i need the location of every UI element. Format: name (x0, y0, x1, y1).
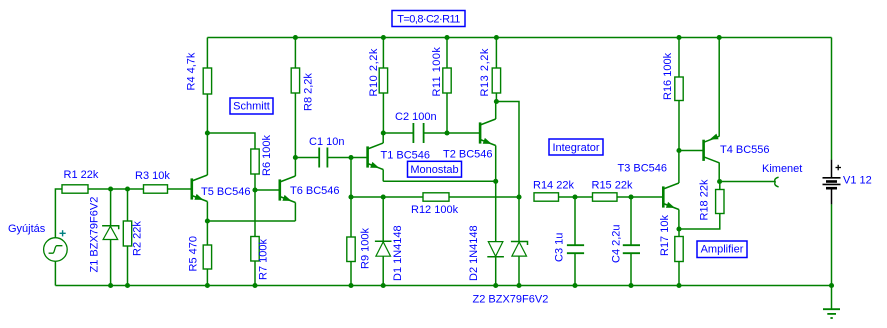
wire T5 collector up to R4 (206, 94, 208, 175)
node C4 junction (628, 194, 633, 199)
node R11 top rail junction (444, 35, 449, 40)
wire emitter rail T1-T2 (383, 180, 496, 182)
node R6 R7 T6-base junction (252, 187, 257, 192)
resistor R18 (719, 182, 721, 190)
wire source top to R1 (55, 189, 62, 238)
node R8 top rail junction (293, 35, 298, 40)
wire R3 to T5 base (168, 188, 192, 190)
wire T4 emitter up to rail (718, 38, 720, 137)
resistor R16 (678, 38, 680, 78)
transistor T6 (280, 176, 296, 203)
svg-text:D1 1N4148: D1 1N4148 (392, 225, 404, 281)
wire monostab output to integrator (496, 102, 519, 198)
resistor R17 (678, 229, 680, 237)
svg-text:R6 100k: R6 100k (261, 135, 273, 176)
svg-text:R12 100k: R12 100k (411, 204, 459, 216)
node R2 top junction (125, 186, 130, 191)
svg-text:R11 100k: R11 100k (431, 47, 443, 97)
node R13 top rail junction (494, 35, 499, 40)
wire junction down to R9 net (350, 158, 352, 198)
svg-text:Gyújtás: Gyújtás (8, 223, 46, 235)
wire R6 bottom to T6 base node (254, 174, 256, 190)
node C1 T1-base junction (348, 155, 353, 160)
wire R1 right to R3 left (88, 188, 144, 190)
wire T3 collector up (678, 151, 680, 184)
svg-text:R14 22k: R14 22k (533, 180, 574, 192)
node C3 junction (572, 194, 577, 199)
wire T2 collector up (495, 102, 497, 119)
box label Schmitt (230, 98, 273, 114)
wire output to Kimenet terminal (720, 181, 775, 183)
svg-text:R3 10k: R3 10k (135, 170, 170, 182)
node T5 collector R6 junction (205, 130, 210, 135)
capacitor C2 (383, 123, 480, 143)
node Z2 R12 R14 junction (516, 194, 521, 199)
capacitor C4 (623, 197, 640, 286)
svg-text:D2 1N4148: D2 1N4148 (468, 225, 480, 281)
resistor R5 (206, 221, 208, 245)
wire T2 emitter down (495, 146, 497, 182)
zener diode Z1 (110, 189, 112, 226)
node T3 collector R16 T4-base junction (676, 148, 681, 153)
svg-text:R17 10k: R17 10k (659, 215, 671, 256)
zener diode Z2 (518, 197, 520, 241)
resistor R3 (144, 185, 168, 193)
resistor R6 (251, 149, 259, 174)
wire bottom ground rail (55, 285, 831, 287)
svg-text:R2 22k: R2 22k (132, 221, 144, 256)
node R10 top rail junction (381, 35, 386, 40)
source V Gyujtas sine-step generator (44, 238, 68, 262)
wire T3 collector to T4 base (679, 150, 704, 152)
resistor R2 (127, 189, 129, 221)
diode D2 (495, 181, 497, 241)
node D2 bottom junction (493, 283, 498, 288)
node D1 bottom junction (381, 283, 386, 288)
svg-text:R16 100k: R16 100k (662, 52, 674, 100)
plus polarity mark of source (60, 230, 66, 236)
wire T4 collector down (718, 163, 720, 182)
ground symbol (823, 286, 840, 319)
resistor R1 (62, 185, 88, 193)
svg-text:T5 BC546: T5 BC546 (201, 186, 251, 198)
node R7 bottom junction (252, 283, 257, 288)
plus polarity mark of battery (836, 165, 842, 171)
svg-text:T4 BC556: T4 BC556 (720, 144, 770, 156)
transistor T2 (480, 119, 496, 146)
transistor T3 (663, 183, 679, 210)
box label Amplifier (697, 241, 747, 258)
resistor R7 (254, 190, 256, 237)
svg-text:Amplifier: Amplifier (701, 244, 744, 256)
node R8 T6-collector C1 junction (293, 155, 298, 160)
svg-text:T1 BC546: T1 BC546 (381, 150, 431, 162)
resistor R13 (495, 38, 497, 69)
box label T=0,8*C2*R11 (392, 11, 465, 27)
capacitor C3 (567, 197, 584, 286)
node T1 collector R10 junction (381, 130, 386, 135)
svg-text:R10 2,2k: R10 2,2k (368, 48, 380, 96)
svg-text:C1 10n: C1 10n (309, 136, 344, 148)
wire T5 emitter down (206, 202, 208, 222)
node Z1 bottom junction (108, 283, 113, 288)
node Z2 bottom junction (516, 283, 521, 288)
node D1 junction (381, 194, 386, 199)
wire node to T6 base (255, 189, 280, 191)
svg-text:R13 2,2k: R13 2,2k (479, 48, 491, 96)
transistor T1 (368, 143, 384, 170)
svg-text:R18 22k: R18 22k (699, 179, 711, 220)
box label Monostab (408, 161, 462, 177)
svg-text:Kimenet: Kimenet (762, 163, 802, 175)
wire R15 to T3 base (617, 196, 663, 198)
svg-text:Monostab: Monostab (410, 164, 458, 176)
diode D1 (382, 197, 384, 241)
node T4 emitter rail junction (717, 35, 722, 40)
resistor R8 (294, 38, 296, 69)
wire R14 to R15 (559, 196, 593, 198)
node T3 emitter R17 R18 junction (676, 226, 681, 231)
node R5 bottom junction (205, 283, 210, 288)
node T5 emitter R5 junction (205, 218, 210, 223)
wire T6 emitter down (294, 203, 296, 222)
svg-text:C4 2,2u: C4 2,2u (611, 224, 623, 263)
svg-text:Schmitt: Schmitt (233, 101, 270, 113)
node R2 bottom junction (125, 283, 130, 288)
svg-text:T2 BC546: T2 BC546 (443, 149, 493, 161)
svg-text:R1 22k: R1 22k (64, 169, 99, 181)
node C4 bottom junction (628, 283, 633, 288)
svg-text:C3 1u: C3 1u (554, 233, 566, 262)
svg-text:C2 100n: C2 100n (395, 111, 437, 123)
wire source bottom to ground rail (54, 261, 56, 285)
node Z1 top junction (108, 186, 113, 191)
resistor R11 (446, 38, 448, 69)
wire common emitter T5-T6 (207, 220, 295, 222)
transistor T5 (192, 175, 208, 202)
box label Integrator (549, 139, 603, 155)
wire T6 collector up (294, 158, 296, 177)
terminal Kimenet output pin (775, 177, 779, 187)
node R17 bottom junction (676, 283, 681, 288)
node T2 collector R13 junction (494, 99, 499, 104)
svg-text:R9 100k: R9 100k (360, 228, 372, 269)
wire T3 emitter down (678, 210, 680, 230)
svg-text:T=0,8·C2·R11: T=0,8·C2·R11 (397, 14, 460, 26)
battery V1 (823, 38, 841, 286)
node C3 bottom junction (572, 283, 577, 288)
svg-text:Integrator: Integrator (552, 142, 599, 154)
svg-text:R15 22k: R15 22k (592, 180, 633, 192)
resistor R9 (350, 197, 352, 237)
wire T5 collector to R6 top (207, 133, 255, 149)
svg-text:T6 BC546: T6 BC546 (290, 185, 340, 197)
node R9 R12 junction (348, 194, 353, 199)
svg-text:Z1 BZX79F6V2: Z1 BZX79F6V2 (89, 197, 101, 273)
node T4 collector R18 output junction (717, 179, 722, 184)
node battery ground junction (829, 283, 834, 288)
svg-text:R8 2,2k: R8 2,2k (303, 73, 315, 111)
node R16 top rail junction (676, 35, 681, 40)
wire T1 collector up (382, 133, 384, 143)
svg-text:Z2 BZX79F6V2: Z2 BZX79F6V2 (473, 294, 549, 306)
capacitor C1 (295, 148, 366, 168)
svg-text:R5 470: R5 470 (187, 236, 199, 271)
resistor R15 (593, 193, 618, 201)
resistor R14 (534, 193, 559, 201)
resistor R4 (203, 68, 211, 94)
node T2 emitter D2 junction (493, 179, 498, 184)
svg-text:T3 BC546: T3 BC546 (618, 163, 668, 175)
svg-text:R4 4,7k: R4 4,7k (186, 52, 198, 90)
node R11 C2 T2-base junction (444, 130, 449, 135)
wire T1 emitter down (382, 170, 384, 182)
resistor R10 (382, 38, 384, 69)
transistor T4 (704, 134, 720, 163)
wire top supply rail (207, 37, 831, 39)
node R9 bottom junction (348, 283, 353, 288)
resistor R12 (351, 196, 423, 198)
svg-text:R7 100k: R7 100k (258, 239, 270, 280)
svg-text:V1 12: V1 12 (843, 175, 872, 187)
